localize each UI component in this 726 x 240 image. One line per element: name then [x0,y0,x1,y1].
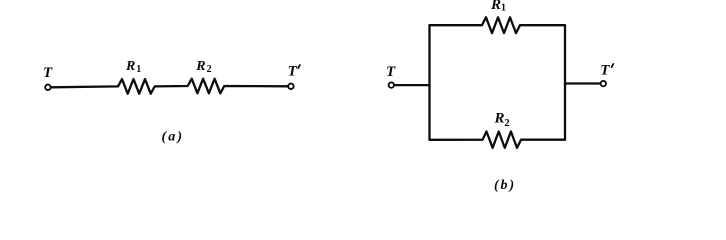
svg-text:R: R [494,110,505,126]
svg-text:(b): (b) [494,178,516,193]
svg-text:1: 1 [136,64,141,75]
svg-text:T: T [288,64,298,80]
svg-text:T: T [43,65,53,81]
svg-text:R: R [490,0,501,13]
svg-text:2: 2 [504,117,510,129]
svg-text:T: T [600,63,610,79]
svg-text:R: R [125,59,135,74]
svg-text:2: 2 [207,64,212,75]
svg-text:R: R [195,59,205,74]
svg-text:T: T [386,64,396,80]
svg-text:(a): (a) [162,130,185,145]
svg-text:1: 1 [501,3,506,14]
